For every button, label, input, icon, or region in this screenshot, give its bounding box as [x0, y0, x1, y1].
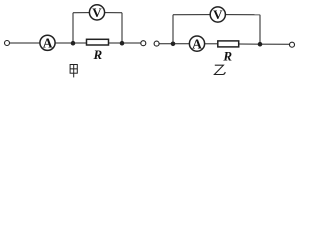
svg-text:A: A [192, 36, 202, 51]
svg-text:V: V [213, 7, 223, 22]
svg-text:A: A [43, 36, 53, 51]
svg-text:R: R [92, 47, 102, 62]
svg-text:R: R [222, 48, 232, 63]
svg-text:V: V [92, 5, 102, 20]
